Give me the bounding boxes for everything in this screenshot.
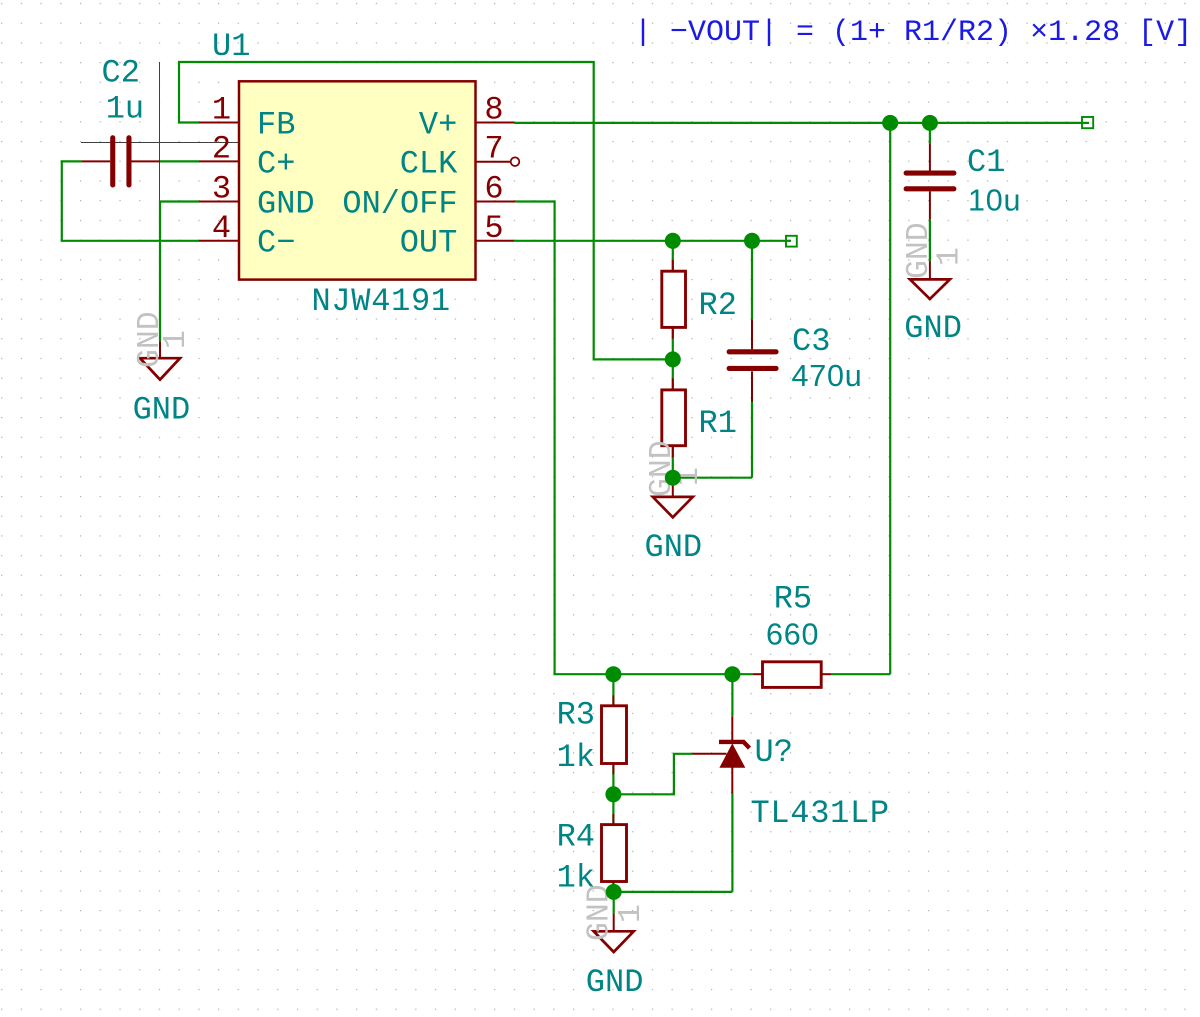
wire OUT net: pin5 to square xyxy=(514,240,791,242)
svg-text:GND: GND xyxy=(586,964,644,1001)
svg-text:3: 3 xyxy=(212,171,231,208)
svg-text:470u: 470u xyxy=(792,359,863,393)
svg-text:1: 1 xyxy=(614,904,649,923)
IC U1 body xyxy=(239,81,476,279)
svg-text:CLK: CLK xyxy=(400,146,458,183)
junction node R3/R4/ref xyxy=(605,786,621,802)
svg-text:2: 2 xyxy=(212,130,231,167)
svg-text:660: 660 xyxy=(766,617,819,651)
pin 5 OUT xyxy=(476,240,515,242)
junction node V+/R5 xyxy=(882,115,898,131)
svg-text:8: 8 xyxy=(484,92,503,129)
svg-text:1: 1 xyxy=(933,247,968,266)
svg-text:R2: R2 xyxy=(699,287,737,324)
wire R3/R4 node to TL431 ref xyxy=(613,754,692,795)
svg-text:FB: FB xyxy=(257,106,295,143)
svg-text:| −VOUT| = (1+ R1/R2) ×1.28 [V: | −VOUT| = (1+ R1/R2) ×1.28 [V] xyxy=(634,16,1192,50)
wire C1 bottom to GND xyxy=(929,220,931,262)
svg-text:R1: R1 xyxy=(699,405,737,442)
pin 2 C+ xyxy=(199,160,239,162)
svg-text:U?: U? xyxy=(755,734,793,771)
svg-text:5: 5 xyxy=(484,210,503,247)
wire R2/R1 chain xyxy=(672,241,674,478)
wire C2 right to pin2 xyxy=(160,160,199,162)
wire C1 top xyxy=(929,123,931,144)
resistor R4 xyxy=(602,814,627,892)
wire ON/OFF net: pin6 down to R3 node row xyxy=(515,202,753,675)
resistor R5 xyxy=(753,662,832,688)
pin 8 V+ xyxy=(476,122,515,124)
junction node R3 top xyxy=(605,666,621,682)
wire V+ net: pin8 to output square xyxy=(514,122,1089,124)
svg-text:1: 1 xyxy=(212,92,231,129)
resistor R3 xyxy=(602,695,627,774)
capacitor C3 xyxy=(727,319,779,402)
svg-text:C3: C3 xyxy=(792,323,830,360)
junction node TL431 top xyxy=(724,666,740,682)
svg-text:1u: 1u xyxy=(106,91,144,128)
svg-text:1: 1 xyxy=(159,330,194,349)
capacitor C2 xyxy=(81,135,160,187)
svg-text:ON/OFF: ON/OFF xyxy=(342,185,457,222)
ground symbol under C1 xyxy=(910,262,950,300)
cursor crosshair xyxy=(81,62,239,218)
junction node OUT/R2 xyxy=(665,233,681,249)
svg-text:1k: 1k xyxy=(557,739,595,776)
svg-text:C1: C1 xyxy=(967,144,1005,181)
svg-text:GND: GND xyxy=(904,310,962,347)
wire C3 bottom xyxy=(751,402,753,478)
capacitor C1 xyxy=(904,144,957,220)
svg-text:GND: GND xyxy=(257,185,315,222)
ground symbol under R4 xyxy=(594,914,634,952)
ground symbol under R1 xyxy=(653,478,693,518)
wire pin3 to GND xyxy=(160,202,199,342)
wire R3/R4 chain xyxy=(612,674,614,892)
pin 7 CLK xyxy=(476,161,511,163)
wire TL431 cathode up xyxy=(731,674,733,716)
unconnected square terminal OUT xyxy=(786,236,797,247)
pin 6 ON/OFF xyxy=(476,201,516,203)
junction node R1/C3 gnd xyxy=(665,470,681,486)
pin 4 C- xyxy=(199,240,239,242)
svg-text:V+: V+ xyxy=(419,106,457,143)
svg-text:U1: U1 xyxy=(212,28,250,65)
junction node FB/R2/R1 xyxy=(665,351,681,367)
wire TL431 anode down xyxy=(731,794,733,892)
svg-text:C+: C+ xyxy=(257,145,295,182)
wire C3 to R1 GND node xyxy=(673,477,752,479)
wire C3 top xyxy=(751,241,753,320)
svg-text:7: 7 xyxy=(484,130,503,167)
wire V+ vertical to R5 xyxy=(889,123,891,674)
svg-text:R3: R3 xyxy=(557,697,595,734)
svg-text:4: 4 xyxy=(212,210,231,247)
wire anode row to R4 bottom node xyxy=(614,891,733,893)
svg-text:GND: GND xyxy=(645,529,703,566)
svg-text:C−: C− xyxy=(257,225,295,262)
svg-text:R5: R5 xyxy=(774,581,812,618)
svg-text:NJW4191: NJW4191 xyxy=(312,283,451,320)
shunt regulator U? TL431LP xyxy=(693,716,750,793)
svg-text:TL431LP: TL431LP xyxy=(751,795,890,832)
resistor R1 xyxy=(662,378,686,457)
svg-text:6: 6 xyxy=(484,171,503,208)
svg-text:OUT: OUT xyxy=(400,225,458,262)
wire FB net: pin1 to R2/R1 node xyxy=(179,62,673,359)
wire R5 right to V+ vertical xyxy=(831,673,890,675)
wire R4 node to GND stub xyxy=(613,892,615,914)
svg-text:C2: C2 xyxy=(102,54,140,91)
junction node OUT/C3 xyxy=(744,233,760,249)
wire tip into OUT square xyxy=(786,240,791,242)
junction node R4/anode xyxy=(606,884,622,900)
junction node V+/C1 xyxy=(922,115,938,131)
unconnected square terminal V+ xyxy=(1082,117,1093,128)
ground symbol near C2/pin3 xyxy=(140,341,180,379)
resistor R2 xyxy=(662,260,686,339)
wire tip into V+ square xyxy=(1082,122,1089,124)
svg-text:R4: R4 xyxy=(557,818,595,855)
pin 3 GND xyxy=(199,201,239,203)
svg-text:10u: 10u xyxy=(968,184,1021,218)
svg-text:GND: GND xyxy=(133,392,191,429)
pin 1 FB xyxy=(199,122,239,124)
wire pin4 C- loop to C2 xyxy=(62,161,199,240)
